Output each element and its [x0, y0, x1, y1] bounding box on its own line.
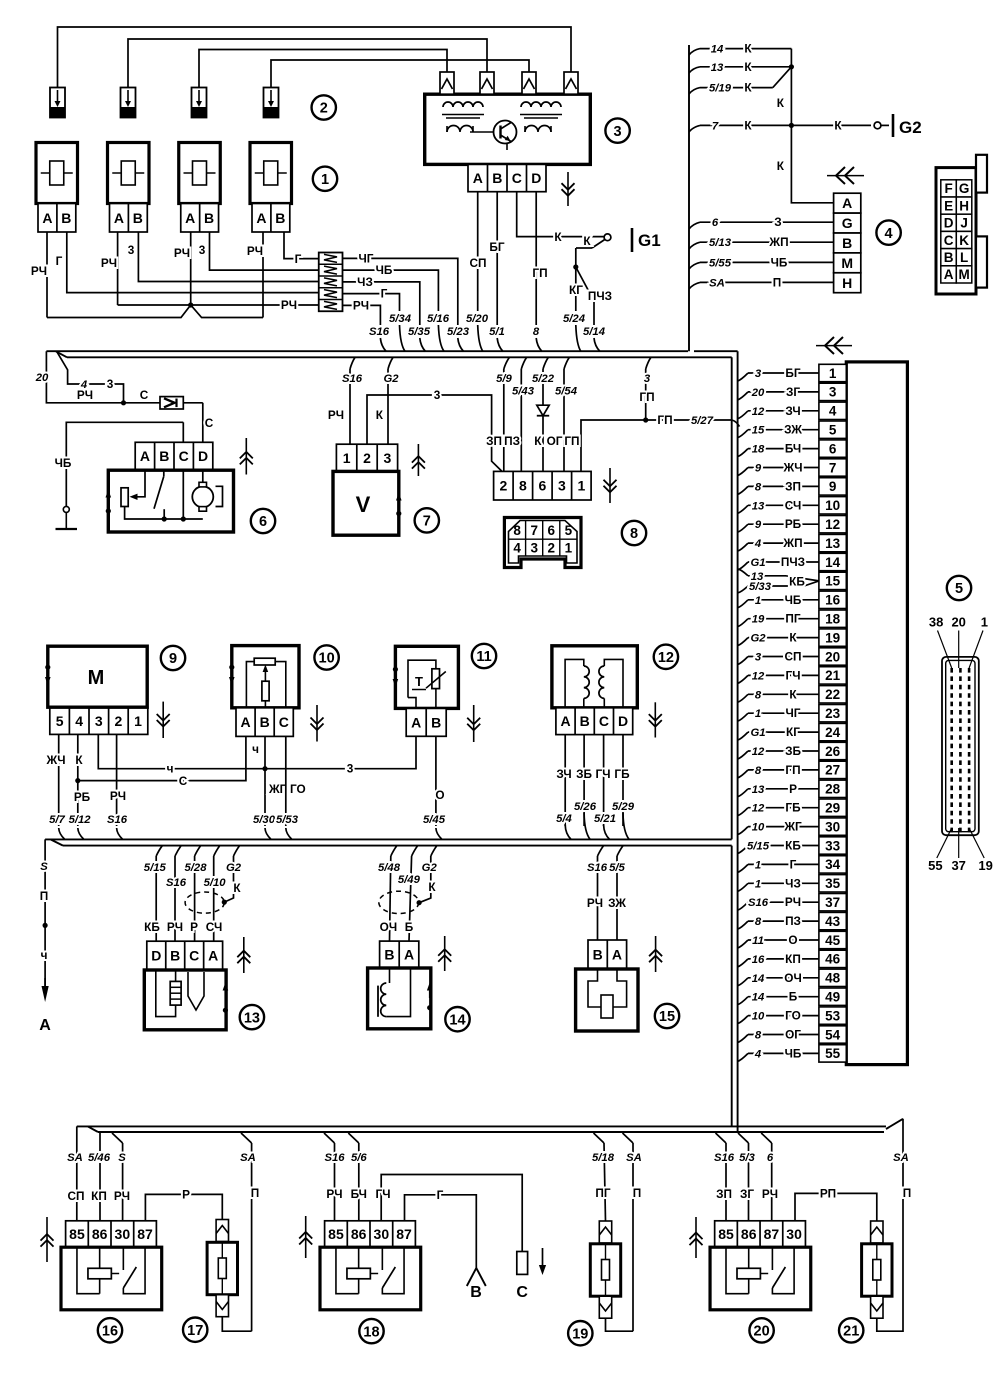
wire КП 5/46 to relay 16 pin 86 [99, 1132, 101, 1221]
ECU pin 21 wire [738, 675, 748, 683]
injector 4 pins A B [252, 204, 290, 233]
throttle position sensor body (item 10) [232, 646, 299, 708]
svg-text:2: 2 [320, 101, 328, 117]
svg-text:1: 1 [134, 713, 142, 729]
svg-text:ЖГ: ЖГ [268, 782, 287, 796]
svg-text:ПЧЗ: ПЧЗ [781, 555, 805, 569]
svg-text:РЧ: РЧ [762, 1187, 778, 1201]
svg-text:1: 1 [755, 708, 761, 720]
svg-text:8: 8 [513, 523, 521, 538]
svg-text:A: A [473, 170, 483, 186]
svg-text:13: 13 [752, 500, 765, 512]
svg-text:5/29: 5/29 [612, 801, 635, 813]
svg-text:Р: Р [182, 1187, 190, 1201]
border of top-right section [688, 45, 690, 351]
svg-text:ЧГ: ЧГ [786, 706, 801, 720]
svg-text:A: A [114, 210, 124, 226]
injector 1 pins A B [38, 204, 76, 233]
svg-text:СЧ: СЧ [206, 920, 223, 934]
connector 8 pin row 2 8 6 3 1 [494, 471, 591, 500]
svg-text:53: 53 [825, 1008, 841, 1023]
svg-text:B: B [133, 210, 143, 226]
wire РЧ 6 to relay 20 pin 87 [761, 1133, 772, 1143]
wire 13-К [689, 67, 700, 73]
wire СЧ 5/10 to item 13 pin A [214, 846, 220, 856]
wire РЧ S to relay 16 pin 30 [112, 1133, 123, 1143]
wire КБ 5/15 to item 13 pin D [156, 846, 162, 856]
fuel pump relay (item 18) [325, 1221, 416, 1247]
svg-text:1: 1 [755, 878, 761, 890]
wire ЗЧ to 5/4 [564, 735, 566, 826]
svg-text:ГП: ГП [657, 413, 672, 427]
svg-text:КГ: КГ [786, 725, 800, 739]
svg-text:C: C [179, 448, 189, 464]
ECU pin 3 wire [738, 392, 748, 400]
ECU pin 4 wire [738, 411, 748, 419]
ECU pin 33 wire [738, 846, 748, 854]
terminal G2 [874, 122, 881, 129]
injector 2 pins A B [110, 204, 148, 233]
svg-text:1: 1 [755, 595, 761, 607]
section border (bottom of top section) [46, 350, 688, 352]
svg-text:2: 2 [363, 450, 371, 466]
svg-text:ЗГ: ЗГ [740, 1187, 754, 1201]
ECU pin 14 wire [738, 562, 748, 570]
wire К РБ to 5/12 [77, 734, 79, 826]
svg-text:G1: G1 [750, 557, 765, 569]
svg-text:5/48: 5/48 [378, 862, 401, 874]
ECU pin 16 wire [738, 600, 748, 608]
svg-text:18: 18 [825, 612, 841, 627]
wire ЗЖ 5/5 to item 15 pin A [617, 846, 623, 856]
svg-text:СП: СП [785, 650, 802, 664]
svg-text:15: 15 [825, 574, 841, 589]
case arrow of item 11 [393, 667, 398, 672]
main relay (item 16) [66, 1221, 157, 1247]
ECU pin 24 wire [738, 732, 748, 740]
svg-text:A: A [256, 210, 266, 226]
svg-text:РЧ: РЧ [247, 244, 263, 258]
svg-text:20: 20 [951, 615, 965, 630]
fuel injector 3 (item 1) [179, 143, 221, 204]
shield arrow right of item 15 [655, 936, 657, 972]
svg-text:H: H [959, 198, 969, 213]
svg-text:6: 6 [259, 514, 267, 530]
wire: HT lead cyl1 to module terminal 4 [58, 27, 572, 88]
svg-text:11: 11 [752, 935, 764, 947]
svg-text:SA: SA [626, 1152, 642, 1164]
svg-text:27: 27 [825, 763, 840, 778]
svg-text:ЧЗ: ЧЗ [785, 876, 801, 890]
svg-text:5/15: 5/15 [747, 841, 770, 853]
item 21 callout [839, 1318, 863, 1342]
ignition module (item 3) [425, 94, 591, 164]
svg-text:ч: ч [41, 948, 48, 962]
svg-text:33: 33 [825, 838, 841, 853]
svg-text:54: 54 [825, 1027, 841, 1042]
section border (top of lower section) [63, 845, 732, 847]
ECU pin 43 wire [738, 921, 748, 929]
svg-text:Г: Г [56, 254, 63, 268]
svg-text:ЧГ: ЧГ [359, 251, 374, 265]
svg-text:К: К [777, 159, 785, 173]
svg-text:ЧБ: ЧБ [55, 456, 72, 470]
svg-text:5/53: 5/53 [276, 814, 299, 826]
bottom section border lower line [98, 1131, 884, 1133]
shield arrow left of relay 16 [46, 1217, 48, 1262]
svg-text:ГБ: ГБ [614, 767, 630, 781]
svg-text:БЧ: БЧ [351, 1187, 367, 1201]
windings of item 12 [565, 659, 584, 707]
svg-text:8: 8 [630, 526, 638, 542]
svg-text:ч: ч [167, 762, 174, 776]
ECU pin 37 wire [738, 902, 748, 910]
right border of middle/lower sections [731, 357, 733, 839]
svg-text:5/18: 5/18 [592, 1152, 615, 1164]
svg-text:2: 2 [548, 540, 556, 555]
svg-text:G2: G2 [383, 373, 399, 385]
svg-text:7: 7 [423, 514, 431, 530]
item 19 callout [568, 1321, 592, 1345]
thermistor of item 11 [408, 660, 436, 697]
svg-text:Г: Г [790, 857, 797, 871]
svg-text:5/46: 5/46 [88, 1152, 111, 1164]
svg-text:ОГ: ОГ [547, 434, 563, 448]
internal contact of item 15 [588, 969, 601, 1007]
svg-text:86: 86 [92, 1226, 108, 1242]
svg-text:34: 34 [825, 857, 841, 872]
svg-text:D: D [944, 216, 954, 231]
fuel injector 2 (item 1) [108, 143, 150, 204]
svg-text:ЧБ: ЧБ [785, 593, 802, 607]
svg-text:8: 8 [519, 478, 527, 494]
svg-text:19: 19 [752, 614, 765, 626]
svg-text:A: A [208, 948, 218, 964]
shield arrow right of item 11 [473, 705, 475, 742]
wire ЗП S16 to relay 20 pin 85 [716, 1133, 727, 1143]
svg-text:ОЧ: ОЧ [380, 920, 397, 934]
svg-text:ПЗ: ПЗ [785, 914, 801, 928]
svg-text:A: A [411, 714, 421, 730]
wire ЖГ to 5/30 [264, 769, 266, 826]
svg-text:5/45: 5/45 [423, 814, 446, 826]
svg-text:5/43: 5/43 [512, 386, 535, 398]
svg-text:V: V [356, 492, 371, 517]
section border (bottom of middle section) [45, 838, 732, 840]
svg-text:К: К [789, 687, 797, 701]
svg-text:Г: Г [381, 287, 388, 301]
wire РЧ S16 to item 13 pin B [175, 846, 181, 856]
svg-text:3: 3 [95, 713, 103, 729]
svg-text:37: 37 [825, 895, 840, 910]
svg-text:СП: СП [68, 1189, 85, 1203]
svg-text:16: 16 [102, 1324, 118, 1340]
svg-text:4: 4 [513, 540, 521, 555]
svg-text:19: 19 [825, 630, 840, 645]
svg-text:4: 4 [754, 1048, 762, 1060]
svg-text:РБ: РБ [74, 790, 91, 804]
svg-text:ГП: ГП [639, 390, 654, 404]
svg-text:ЗБ: ЗБ [785, 744, 801, 758]
wire РЧ from injector1 pin A [46, 232, 48, 318]
ECU pin 1 wire [738, 373, 748, 381]
wire РЧ from injector4 pin A [262, 232, 264, 318]
svg-text:ЧБ: ЧБ [785, 1046, 802, 1060]
ignition coil winding [443, 102, 483, 107]
svg-text:В: В [470, 1284, 482, 1301]
wire ГЧ relay 18 pin 30 to terminal C [381, 1175, 522, 1252]
fuel injector 1 (item 1) [36, 143, 78, 204]
wire РЧ from resistor block to S16 [343, 305, 381, 325]
svg-text:9: 9 [755, 519, 762, 531]
svg-text:О: О [788, 933, 797, 947]
shield arrow right of item 9 [162, 702, 164, 738]
svg-text:S16: S16 [324, 1152, 345, 1164]
wire 5/19-К [689, 88, 700, 94]
voltage sensor body V (item 7) [333, 471, 399, 535]
ECU pin 55 wire [738, 1053, 748, 1061]
svg-text:5/13: 5/13 [709, 237, 732, 249]
wire П lamp 17 to SA [251, 1143, 253, 1331]
svg-text:19: 19 [572, 1326, 588, 1342]
idle air control valve pins A B C D (item 6) [135, 442, 213, 470]
svg-text:5/28: 5/28 [185, 862, 208, 874]
item 9 callout [161, 646, 185, 670]
svg-text:7: 7 [530, 523, 538, 538]
svg-text:22: 22 [825, 687, 840, 702]
svg-text:ч: ч [252, 742, 259, 756]
svg-text:D: D [531, 170, 541, 186]
wire ГБ to 5/29 [622, 735, 624, 826]
wire ОГ 5/54 to connector 8 pin 3 [564, 357, 569, 369]
svg-text:2: 2 [115, 713, 123, 729]
wire: HT lead cyl3 to module terminal 1 [199, 50, 447, 88]
svg-text:5/22: 5/22 [532, 373, 555, 385]
item 15 callout [655, 1004, 679, 1028]
svg-text:ПГ: ПГ [595, 1186, 610, 1200]
ground symbol [65, 512, 67, 528]
svg-text:B: B [275, 210, 285, 226]
wire БГ module pin B to 5/1 [496, 192, 498, 325]
svg-text:19: 19 [978, 858, 992, 873]
svg-text:ЖП: ЖП [782, 536, 802, 550]
svg-text:С: С [140, 388, 149, 402]
svg-text:46: 46 [825, 952, 841, 967]
svg-text:C: C [512, 170, 522, 186]
svg-text:6: 6 [829, 441, 837, 456]
svg-text:G1: G1 [750, 727, 765, 739]
svg-text:К: К [789, 631, 797, 645]
oxygen sensor body (item 13) [144, 970, 226, 1030]
svg-text:30: 30 [115, 1226, 131, 1242]
wire З from item 7 pin 2 to connector 8 pin 2 [367, 395, 502, 471]
wire Ч from item 9 pin 3 [98, 734, 265, 768]
svg-text:А: А [39, 1017, 51, 1034]
wire Г from injector1 pin B [67, 232, 319, 293]
wire РЧ S16 to item 15 pin B [598, 846, 604, 856]
bottom section border upper line [77, 1125, 886, 1127]
svg-text:КГ: КГ [569, 283, 583, 297]
svg-text:9: 9 [169, 651, 177, 667]
svg-text:3: 3 [347, 762, 354, 776]
ECU pin 28 wire [738, 789, 748, 797]
svg-text:5/16: 5/16 [427, 313, 450, 325]
svg-text:4: 4 [75, 713, 83, 729]
wire 14-К [689, 49, 700, 55]
svg-text:5/20: 5/20 [466, 313, 489, 325]
case arrow of item 6 [107, 496, 109, 505]
svg-text:ЗП: ЗП [486, 434, 502, 448]
svg-text:3: 3 [434, 388, 441, 402]
wire К module pin C to G1 terminal [517, 192, 604, 237]
svg-text:10: 10 [319, 651, 335, 667]
svg-text:3: 3 [644, 373, 651, 385]
shield arrow right of item 10 [316, 705, 318, 742]
heater resistor of item 13 [170, 981, 181, 1005]
svg-text:A: A [185, 210, 195, 226]
svg-text:S16: S16 [587, 862, 608, 874]
wire ЧБ to ground [66, 422, 183, 506]
ECU pin 49 wire [738, 997, 748, 1005]
wire П SA to lamp 21 [877, 1119, 903, 1331]
wire ПЗ 5/43 to connector 8 pin 8 [521, 357, 526, 369]
svg-text:30: 30 [374, 1226, 390, 1242]
svg-text:6: 6 [767, 1152, 774, 1164]
svg-text:9: 9 [755, 463, 762, 475]
svg-text:B: B [492, 170, 502, 186]
svg-text:M: M [958, 267, 969, 282]
module HV terminal [480, 72, 494, 94]
wire ГП module pin D to 8 [535, 192, 537, 325]
svg-text:1: 1 [321, 172, 329, 188]
fan relay (item 20) [715, 1221, 806, 1247]
section border (top of middle section) [67, 356, 732, 358]
svg-text:17: 17 [187, 1323, 203, 1339]
potentiometer of item 10 [254, 658, 275, 665]
svg-text:1: 1 [755, 859, 761, 871]
svg-text:Г: Г [295, 252, 302, 266]
svg-text:3: 3 [128, 243, 135, 257]
svg-text:ГЧ: ГЧ [596, 767, 611, 781]
svg-text:24: 24 [825, 725, 841, 740]
svg-text:G1: G1 [638, 231, 661, 250]
svg-text:ОЧ: ОЧ [784, 971, 801, 985]
knock sensor body (item 14) [368, 968, 431, 1029]
ECU pin 18 wire [738, 619, 748, 627]
svg-text:1: 1 [577, 478, 585, 494]
coolant temperature sensor body (item 11) [395, 646, 458, 708]
double chevron harness mark top right [816, 345, 852, 347]
wire КГ junction [575, 248, 577, 267]
svg-text:S16: S16 [342, 373, 363, 385]
ECU pin 30 wire [738, 827, 748, 835]
svg-text:14: 14 [752, 973, 765, 985]
shield arrow left of relay 20 [695, 1217, 697, 1258]
svg-text:5: 5 [829, 423, 837, 438]
svg-text:48: 48 [825, 971, 841, 986]
injector 3 pins A B [181, 204, 219, 233]
svg-text:ГЧ: ГЧ [376, 1187, 391, 1201]
ECU pin 7 wire [738, 468, 748, 476]
svg-text:L: L [960, 250, 968, 265]
svg-text:12: 12 [658, 650, 674, 666]
svg-text:ГП: ГП [564, 434, 579, 448]
wire S П ч to point A [44, 839, 46, 988]
wire К G2 shield drain of item 14 [431, 846, 437, 856]
ECU pin 19 wire [738, 638, 748, 646]
svg-text:ЗГ: ЗГ [786, 385, 800, 399]
wire З from injector3 pin B [210, 232, 319, 270]
wire П SA to lamp 19 [623, 1133, 634, 1143]
svg-text:D: D [618, 713, 628, 729]
svg-text:M: M [841, 255, 853, 271]
svg-text:A: A [404, 947, 414, 963]
svg-text:П: П [633, 1186, 641, 1200]
terminal C connector [517, 1252, 528, 1275]
svg-text:18: 18 [752, 444, 765, 456]
svg-text:55: 55 [825, 1046, 841, 1061]
ECU pin 10 wire [738, 505, 748, 513]
svg-text:ОГ: ОГ [785, 1028, 801, 1042]
shield arrow right of item 13 [243, 937, 245, 973]
svg-text:РЧ: РЧ [587, 896, 603, 910]
ECU pin 5 wire [738, 430, 748, 438]
svg-text:87: 87 [396, 1226, 412, 1242]
svg-text:ЖЧ: ЖЧ [45, 753, 65, 767]
shield ellipse of item 14 harness [379, 891, 419, 913]
wire К down to connector 4 pin A [791, 125, 833, 202]
svg-text:1: 1 [565, 540, 573, 555]
svg-text:87: 87 [137, 1226, 153, 1242]
svg-text:К: К [834, 118, 842, 132]
svg-text:КБ: КБ [789, 574, 805, 588]
svg-text:ЗП: ЗП [716, 1187, 732, 1201]
idle air control valve body (item 6) [108, 470, 233, 532]
svg-text:ЗЖ: ЗЖ [608, 896, 626, 910]
svg-text:1: 1 [981, 615, 988, 630]
module HV terminal [522, 72, 536, 94]
svg-text:F: F [944, 181, 952, 196]
svg-text:С: С [205, 416, 214, 430]
shield arrow above item 7 [417, 444, 419, 476]
svg-text:30: 30 [786, 1226, 802, 1242]
svg-text:ЧЗ: ЧЗ [357, 275, 373, 289]
svg-text:15: 15 [752, 425, 765, 437]
wire 5/13-ЖП to pin B [689, 242, 700, 249]
ECU pin 23 wire [738, 713, 748, 721]
ECU pin 35 wire [738, 883, 748, 891]
svg-text:ГО: ГО [785, 1009, 801, 1023]
svg-text:C: C [189, 948, 199, 964]
item 11 pins A B [406, 708, 446, 736]
svg-text:26: 26 [825, 744, 841, 759]
spark plug connector 4 (item 2) [264, 88, 279, 118]
svg-text:5/7: 5/7 [49, 814, 65, 826]
svg-text:5/5: 5/5 [609, 862, 625, 874]
svg-text:П: П [903, 1186, 911, 1200]
svg-text:К: К [744, 42, 752, 56]
wire 4 - 3 [57, 351, 124, 402]
wire ГЧ to 5/21 [603, 735, 605, 826]
case arrow of item 9 [45, 665, 50, 670]
svg-text:5/3: 5/3 [739, 1152, 755, 1164]
svg-text:B: B [842, 235, 852, 251]
svg-text:РЧ: РЧ [114, 1189, 130, 1203]
wire ПГ 5/18 to lamp 19 [594, 1133, 605, 1143]
wire ЖЧ to 5/7 [58, 734, 60, 826]
svg-text:28: 28 [825, 782, 841, 797]
svg-text:D: D [151, 948, 161, 964]
